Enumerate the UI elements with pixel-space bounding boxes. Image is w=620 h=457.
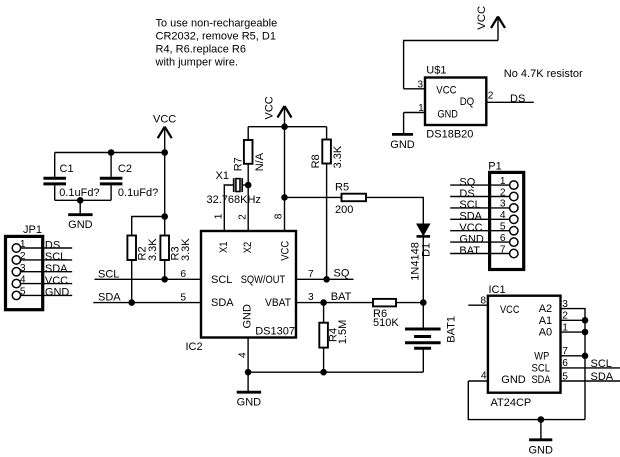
- svg-text:GND: GND: [438, 108, 458, 120]
- node junction R5 branch: [281, 194, 288, 201]
- svg-text:510K: 510K: [373, 317, 399, 329]
- pin number 6 (IC2): [180, 269, 186, 280]
- wire D1 to BAT node: [422, 236, 424, 302]
- svg-text:VCC: VCC: [459, 222, 482, 234]
- wire VCC to pin 3: [404, 41, 498, 89]
- wire BAT: [296, 302, 373, 304]
- wire pin 5 SDA: [561, 380, 620, 382]
- crystal X1: [207, 170, 261, 206]
- connector JP1 label: [23, 224, 42, 236]
- svg-text:N/A: N/A: [254, 152, 266, 171]
- svg-text:C2: C2: [118, 163, 132, 175]
- svg-text:VCC: VCC: [436, 85, 456, 97]
- wire pin 7 WP: [561, 355, 586, 357]
- svg-text:R8: R8: [310, 154, 322, 168]
- ic IC1 AT24CP box: [488, 296, 561, 393]
- svg-text:DS: DS: [510, 93, 525, 105]
- svg-text:DS: DS: [459, 188, 474, 200]
- svg-text:R4, R6.replace R6: R4, R6.replace R6: [156, 44, 247, 56]
- svg-text:No 4.7K resistor: No 4.7K resistor: [504, 68, 583, 80]
- power VCC symbol (top-left): [153, 114, 176, 153]
- wire IC1 gnd rail: [468, 381, 585, 420]
- wire P1 pin 3 net SCL: [450, 199, 509, 212]
- wire R3 to SCL: [164, 260, 166, 279]
- wire cap bottom rail: [55, 199, 111, 201]
- svg-text:AT24CP: AT24CP: [491, 397, 532, 409]
- wire pin 3 stub: [404, 88, 425, 90]
- svg-text:32.768KHz: 32.768KHz: [207, 194, 261, 206]
- svg-text:2: 2: [20, 251, 26, 262]
- wire R5 to D1: [366, 197, 423, 224]
- capacitor C1: [43, 153, 99, 201]
- wire P1 pin 2 net DS: [450, 187, 509, 200]
- node junction VCC/cap rail: [161, 149, 168, 156]
- svg-text:3.3K: 3.3K: [332, 145, 344, 168]
- svg-text:DS18B20: DS18B20: [426, 128, 473, 140]
- pin number 8 (IC2): [274, 213, 285, 219]
- node junction WP gnd: [582, 353, 589, 360]
- wire SDA: [93, 302, 201, 304]
- wire VCC to cap rail: [164, 153, 166, 217]
- wire pin 2: [247, 185, 249, 231]
- wire pin 3 A2: [561, 309, 586, 420]
- svg-text:2: 2: [500, 187, 506, 198]
- svg-text:SDA: SDA: [45, 263, 68, 275]
- svg-text:DQ: DQ: [460, 96, 475, 108]
- net label SCL: [98, 268, 119, 280]
- pin number 2 (IC1): [562, 311, 568, 322]
- net label SDA (IC1): [591, 371, 614, 383]
- note text block: [155, 18, 278, 69]
- svg-text:2: 2: [488, 91, 494, 102]
- pin number 6 (IC1): [562, 358, 568, 369]
- resistor R8: [310, 127, 344, 169]
- svg-text:1.5M: 1.5M: [337, 320, 349, 344]
- svg-text:DS: DS: [45, 239, 60, 251]
- resistor R5: [335, 182, 366, 217]
- svg-text:with jumper wire.: with jumper wire.: [155, 57, 239, 69]
- wire SQ: [296, 278, 354, 280]
- ground GND (IC1): [528, 420, 553, 457]
- wire pin 2 A1: [561, 319, 586, 321]
- svg-text:SQW/OUT: SQW/OUT: [241, 274, 286, 286]
- wire pin 4 gnd: [468, 380, 488, 382]
- svg-text:X1: X1: [218, 242, 230, 254]
- connector P1: [490, 172, 524, 269]
- svg-text:7: 7: [308, 269, 314, 280]
- svg-text:P1: P1: [488, 160, 501, 172]
- svg-text:1: 1: [214, 213, 225, 219]
- wire VCC rail to pin 8: [284, 127, 286, 231]
- wire pin 1 gnd: [404, 112, 425, 114]
- net label BAT: [331, 291, 352, 303]
- svg-text:GND: GND: [459, 233, 484, 245]
- node junction BAT/R4: [320, 299, 327, 306]
- ic IC2 pin labels: [211, 241, 295, 338]
- wire P1 pin 5 net VCC: [450, 222, 509, 235]
- net label SCL (IC1): [591, 358, 612, 370]
- pin number 1 (U$1): [418, 103, 424, 114]
- pin number 7 (IC1): [562, 346, 568, 357]
- svg-text:U$1: U$1: [426, 65, 446, 77]
- wire P1 pin 6 net GND: [450, 233, 509, 246]
- wire JP1 pin 4 net VCC: [20, 275, 72, 287]
- svg-text:IC2: IC2: [186, 341, 203, 353]
- wire X1 to pin 1: [224, 185, 233, 231]
- svg-text:3: 3: [20, 263, 26, 274]
- net label DS: [510, 93, 525, 105]
- wire X1 to pin 2: [242, 184, 248, 186]
- wire pin 6 SCL: [561, 367, 620, 369]
- wire pin 4 gnd: [247, 338, 249, 373]
- svg-text:3: 3: [500, 199, 506, 210]
- pin number 3 (U$1): [417, 79, 423, 90]
- svg-text:4: 4: [20, 275, 26, 286]
- resistor R2: [127, 236, 159, 262]
- wire R5 branch: [285, 196, 342, 198]
- pin number 1 (IC2): [214, 213, 225, 219]
- resistor R6: [373, 299, 399, 329]
- svg-text:5: 5: [180, 292, 186, 303]
- node junction D1/BAT1/R6: [420, 299, 427, 306]
- pin number 2 (U$1): [488, 91, 494, 102]
- svg-text:VCC: VCC: [45, 275, 68, 287]
- node junction R4 gnd: [320, 369, 327, 376]
- wire DQ net DS: [486, 101, 534, 103]
- svg-text:0.1uFd?: 0.1uFd?: [118, 187, 158, 199]
- battery BAT1: [405, 303, 457, 373]
- power VCC symbol (IC2 rail): [264, 96, 292, 126]
- svg-text:SDA: SDA: [459, 211, 482, 223]
- wire R2/R3 top rail: [132, 217, 165, 236]
- connector P1 label: [488, 160, 501, 172]
- svg-text:A2: A2: [539, 303, 552, 315]
- node junction gnd rail: [245, 369, 252, 376]
- pin number 4 (IC2): [237, 352, 248, 358]
- svg-text:5: 5: [500, 222, 506, 233]
- svg-text:GND: GND: [390, 139, 415, 151]
- ic U$1 DS18B20 box: [425, 78, 486, 126]
- svg-text:SDA: SDA: [532, 374, 552, 386]
- pin number 3 (IC2): [308, 292, 314, 303]
- ground GND (caps): [68, 200, 93, 231]
- wire SCL: [95, 278, 202, 280]
- pin number 5 (IC2): [180, 292, 186, 303]
- svg-text:R5: R5: [335, 182, 349, 194]
- node junction IC1 gnd: [538, 416, 545, 423]
- node junction SCL/R3: [161, 276, 168, 283]
- svg-text:X1: X1: [216, 170, 229, 182]
- node junction A1 gnd: [582, 317, 589, 324]
- svg-text:8: 8: [274, 213, 285, 219]
- svg-text:VCC: VCC: [500, 304, 520, 316]
- svg-text:WP: WP: [534, 351, 549, 363]
- svg-text:D1: D1: [420, 243, 432, 257]
- ic IC1 pin labels: [500, 303, 552, 386]
- svg-text:SCL: SCL: [532, 362, 551, 374]
- svg-text:4: 4: [237, 352, 248, 358]
- net label SQ: [334, 268, 350, 280]
- node junction X1/R7: [245, 182, 252, 189]
- svg-text:GND: GND: [528, 444, 553, 456]
- svg-text:CR2032, remove R5, D1: CR2032, remove R5, D1: [156, 31, 276, 43]
- wire R8 to SQ line: [326, 164, 328, 280]
- svg-text:VBAT: VBAT: [265, 297, 291, 309]
- ic U1 DS1307 box: [201, 231, 296, 338]
- svg-text:1: 1: [20, 239, 26, 250]
- svg-text:To use non-rechargeable: To use non-rechargeable: [156, 18, 278, 30]
- svg-text:A1: A1: [539, 315, 552, 327]
- wire JP1 pin 2 net SCL: [20, 251, 72, 263]
- svg-text:GND: GND: [242, 304, 254, 329]
- wire battery to gnd rail: [422, 371, 424, 373]
- wire P1 pin 4 net SDA: [450, 210, 509, 223]
- wire P1 pin 1 net SQ: [450, 176, 509, 189]
- node junction cap gnd: [77, 197, 84, 204]
- svg-text:2: 2: [237, 214, 248, 220]
- svg-text:VCC: VCC: [280, 241, 292, 261]
- wire cap top rail: [55, 152, 165, 154]
- svg-text:VCC: VCC: [264, 96, 276, 119]
- pin number 2 (IC2): [237, 214, 248, 220]
- wire JP1 pin 5 net GND: [20, 287, 72, 299]
- wire pin 1 A0: [561, 331, 586, 333]
- svg-text:200: 200: [335, 204, 353, 216]
- power VCC symbol (DS18B20): [476, 6, 505, 41]
- node junction A0 gnd: [582, 329, 589, 336]
- connector JP1: [6, 236, 43, 309]
- node junction VCC/R3: [161, 213, 168, 220]
- wire pin 8 stub: [468, 304, 488, 306]
- svg-text:4: 4: [481, 370, 487, 381]
- svg-text:SCL: SCL: [211, 274, 232, 286]
- svg-text:GND: GND: [501, 374, 526, 386]
- svg-text:DS1307: DS1307: [255, 325, 295, 337]
- svg-text:R7: R7: [233, 157, 245, 171]
- svg-text:6: 6: [180, 269, 186, 280]
- svg-text:3: 3: [308, 292, 314, 303]
- svg-text:SDA: SDA: [98, 292, 121, 304]
- ground GND (DS18B20): [390, 113, 415, 151]
- svg-text:5: 5: [20, 287, 26, 298]
- svg-text:X2: X2: [242, 242, 254, 254]
- ic U$1 pin labels: [436, 85, 474, 121]
- svg-text:SQ: SQ: [459, 176, 475, 188]
- svg-text:4: 4: [500, 210, 506, 221]
- svg-text:BAT: BAT: [331, 291, 352, 303]
- svg-text:SQ: SQ: [334, 268, 350, 280]
- pin number 4 (IC1): [481, 370, 487, 381]
- node junction SQ/R8: [323, 276, 330, 283]
- resistor R3: [160, 217, 192, 262]
- node junction VCC rail: [281, 123, 288, 130]
- pin number 3 (IC1): [562, 299, 568, 310]
- wire R6 to battery node: [396, 302, 423, 304]
- pin number 1 (IC1): [562, 323, 568, 334]
- resistor R7: [233, 127, 267, 185]
- pin number 7 (IC2): [308, 269, 314, 280]
- pin number 8 (IC1): [480, 296, 486, 307]
- svg-text:GND: GND: [45, 287, 70, 299]
- svg-text:GND: GND: [237, 397, 262, 409]
- svg-text:SCL: SCL: [45, 251, 66, 263]
- ic reference IC2: [186, 341, 203, 353]
- svg-text:BAT1: BAT1: [445, 316, 457, 343]
- svg-text:IC1: IC1: [489, 284, 506, 296]
- svg-text:3.3K: 3.3K: [180, 238, 192, 261]
- wire R7-R8 top rail: [248, 126, 326, 128]
- svg-text:VCC: VCC: [476, 6, 488, 30]
- svg-text:A0: A0: [539, 327, 552, 339]
- svg-text:JP1: JP1: [23, 224, 42, 236]
- ic IC1 part name: [491, 397, 532, 409]
- svg-text:SDA: SDA: [211, 297, 234, 309]
- capacitor C2: [100, 153, 158, 201]
- ic IC1 label: [489, 284, 506, 296]
- svg-text:SCL: SCL: [591, 358, 612, 370]
- node junction C2 top: [108, 149, 115, 156]
- ic U$1 part name: [426, 128, 473, 140]
- wire JP1 pin 1 net DS: [20, 239, 72, 251]
- svg-text:SDA: SDA: [591, 371, 614, 383]
- wire GND rail: [248, 371, 423, 373]
- note no-resistor: [504, 68, 583, 80]
- svg-text:SCL: SCL: [459, 199, 480, 211]
- wire JP1 pin 3 net SDA: [20, 263, 72, 275]
- svg-text:1: 1: [500, 176, 506, 187]
- resistor R4: [319, 303, 349, 373]
- svg-text:GND: GND: [68, 219, 93, 231]
- node junction SDA/R2: [128, 299, 135, 306]
- ic U$1 label: [426, 65, 446, 77]
- wire R2 to SDA: [131, 260, 133, 303]
- wire P1 pin 7 net BAT: [450, 244, 509, 256]
- pin number 5 (IC1): [562, 371, 568, 382]
- svg-text:6: 6: [500, 233, 506, 244]
- diode D1 1N4148: [410, 224, 433, 281]
- svg-text:VCC: VCC: [153, 114, 176, 126]
- svg-text:C1: C1: [60, 163, 74, 175]
- svg-text:3.3K: 3.3K: [147, 238, 159, 261]
- net label SDA: [98, 292, 121, 304]
- ground GND (IC2): [237, 372, 262, 409]
- svg-text:BAT: BAT: [459, 245, 480, 257]
- svg-text:7: 7: [500, 244, 506, 255]
